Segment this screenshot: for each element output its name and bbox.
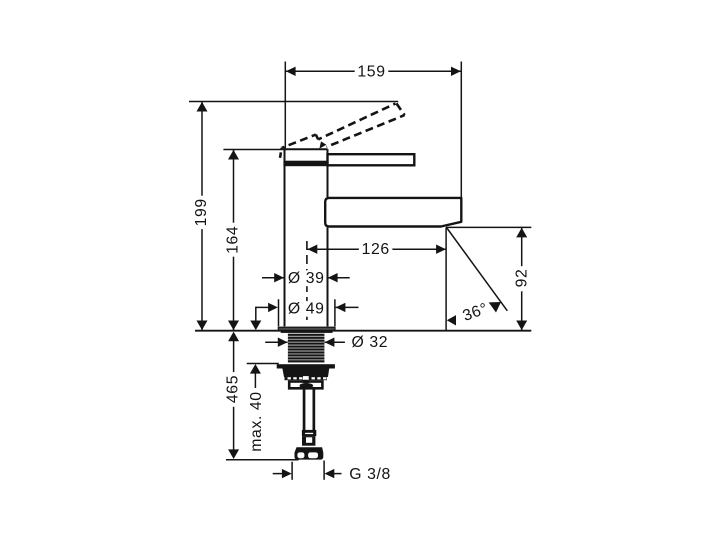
hose fitting <box>302 430 316 446</box>
svg-text:92: 92 <box>513 269 530 288</box>
svg-text:164: 164 <box>225 226 242 254</box>
aerator axis line <box>445 227 447 330</box>
dimension 199 height to handle top <box>189 102 398 331</box>
dimension diameter 49 flange <box>250 299 358 330</box>
svg-text:126: 126 <box>362 241 390 258</box>
mounting hardware <box>277 364 335 388</box>
dimension 92 outlet height <box>446 227 531 330</box>
handle bar <box>328 154 415 165</box>
svg-text:Ø 49: Ø 49 <box>288 300 325 317</box>
svg-text:Ø 39: Ø 39 <box>288 270 325 287</box>
dimension max 40 mounting thickness <box>247 364 279 452</box>
handle lever raised position dashed <box>280 103 405 157</box>
base flange <box>278 327 335 333</box>
svg-text:Ø 32: Ø 32 <box>351 334 388 351</box>
dimension diameter 32 shank <box>265 334 388 351</box>
dimension G 3/8 connector <box>273 461 391 484</box>
dimension 164 height to body top <box>223 150 284 331</box>
dimension 465 hose length <box>224 332 298 460</box>
faucet axis centerline <box>306 241 308 325</box>
svg-text:199: 199 <box>193 198 210 226</box>
supply pipe <box>303 389 316 431</box>
connector nut G38 <box>295 447 324 459</box>
svg-text:G 3/8: G 3/8 <box>349 466 391 483</box>
svg-text:159: 159 <box>357 63 385 80</box>
dimension diameter 39 body <box>262 270 350 287</box>
dimension 126 spout reach <box>307 241 446 258</box>
svg-text:max. 40: max. 40 <box>248 391 265 451</box>
faucet body column <box>285 149 328 326</box>
handle hub <box>283 149 329 166</box>
angle 36 deg water stream <box>447 228 508 326</box>
countertop reference line <box>195 330 531 332</box>
threaded shank <box>288 333 325 362</box>
dimension 159 total width <box>285 62 461 199</box>
spout <box>325 198 461 227</box>
svg-text:465: 465 <box>224 375 241 403</box>
